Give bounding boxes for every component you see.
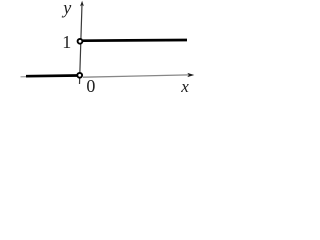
svg-text:1: 1 xyxy=(62,32,71,52)
step segment y=1 for x>0: thick line xyxy=(83,39,187,42)
open circle at origin xyxy=(77,73,82,78)
x-axis xyxy=(83,75,189,77)
background xyxy=(0,0,200,96)
step segment y=0 for x<0: faint tail xyxy=(21,76,29,78)
y-axis xyxy=(80,4,83,84)
svg-text:0: 0 xyxy=(86,76,95,96)
y-axis arrowhead xyxy=(80,1,84,7)
svg-text:x: x xyxy=(180,77,189,96)
svg-text:y: y xyxy=(61,0,71,18)
step segment y=0 for x<0: thick line xyxy=(26,74,77,77)
x-axis arrowhead xyxy=(187,73,194,77)
open circle at (0,1) xyxy=(78,39,83,44)
